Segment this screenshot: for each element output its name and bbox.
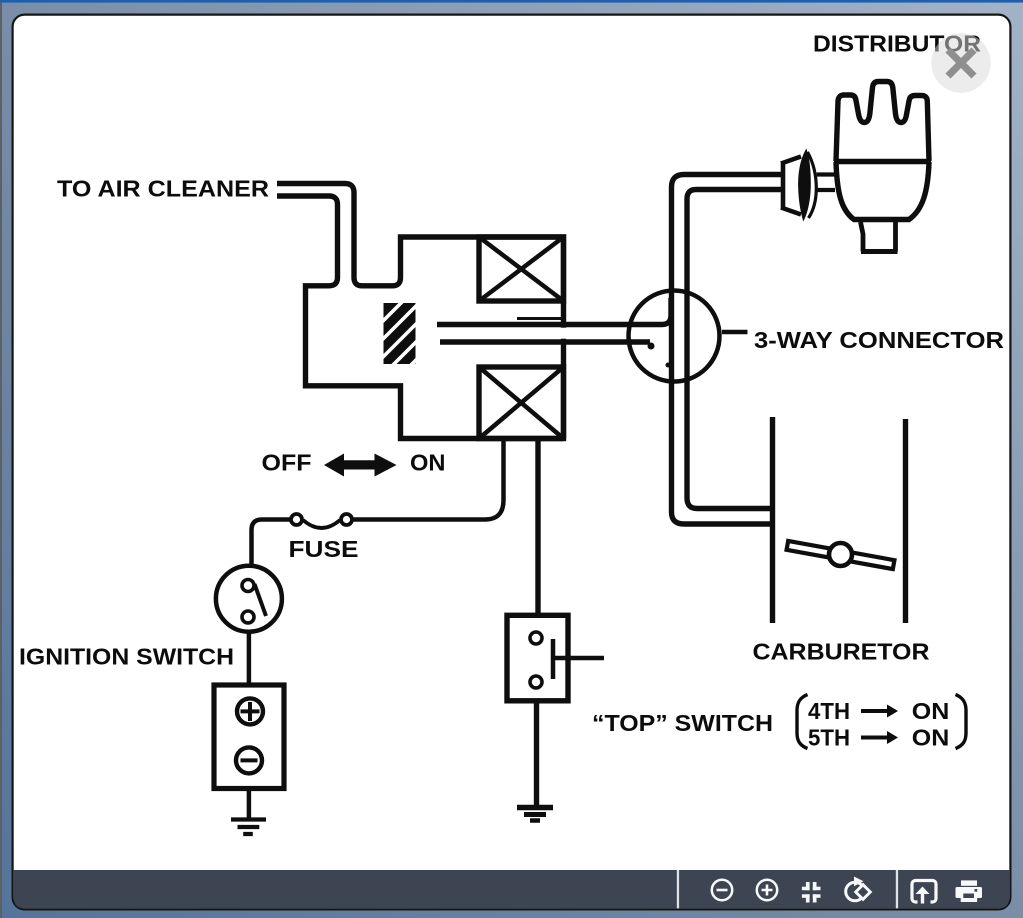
svg-text:4TH: 4TH <box>808 698 850 724</box>
svg-text:5TH: 5TH <box>808 725 850 751</box>
svg-text:ON: ON <box>912 698 950 724</box>
svg-text:ON: ON <box>912 725 950 751</box>
svg-text:TO AIR CLEANER: TO AIR CLEANER <box>57 176 269 202</box>
svg-text:FUSE: FUSE <box>289 536 359 562</box>
svg-text:“TOP” SWITCH: “TOP” SWITCH <box>592 710 773 736</box>
svg-text:CARBURETOR: CARBURETOR <box>753 639 930 665</box>
svg-text:OFF: OFF <box>262 450 312 476</box>
svg-text:IGNITION SWITCH: IGNITION SWITCH <box>19 644 234 670</box>
svg-text:ON: ON <box>410 450 446 476</box>
svg-text:3-WAY CONNECTOR: 3-WAY CONNECTOR <box>754 327 1004 353</box>
